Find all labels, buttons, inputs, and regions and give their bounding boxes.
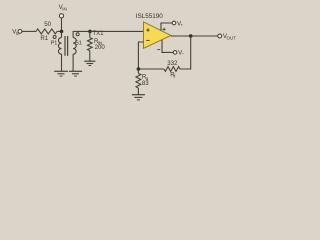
terminal VOUT	[218, 34, 222, 38]
wire primary bottom to ground	[61, 54, 63, 71]
svg-text:IN: IN	[62, 6, 66, 11]
transformer TX1 secondary winding	[73, 38, 76, 55]
label RIN	[94, 38, 102, 46]
wire node C to Rg	[137, 69, 139, 73]
wire R1 to node A	[57, 30, 62, 32]
label pin minus	[157, 49, 160, 51]
svg-text:332: 332	[167, 60, 178, 67]
label Rf value 332	[167, 60, 178, 67]
resistor R1	[36, 29, 57, 34]
wire op-amp minus input to node C	[138, 42, 143, 69]
terminal V+	[172, 21, 176, 25]
label S1	[75, 41, 82, 47]
wire VIN to node A	[61, 18, 63, 31]
wire VS to R1	[22, 30, 36, 32]
label V+	[177, 20, 183, 27]
junction output node	[189, 34, 193, 38]
wire op-amp output	[171, 35, 218, 37]
resistor Rf	[164, 67, 180, 72]
junction node C	[137, 67, 141, 71]
ground RIN	[84, 61, 95, 65]
wire node A to primary	[61, 31, 63, 37]
svg-text:200: 200	[95, 44, 106, 51]
op-amp V+ pin wire	[161, 23, 172, 31]
svg-text:R1: R1	[40, 35, 48, 42]
label R1 value 50	[44, 21, 51, 28]
wire Rg to ground	[137, 88, 139, 94]
wire RIN to ground	[89, 51, 91, 61]
svg-text:ISL55190: ISL55190	[136, 13, 163, 20]
op-amp V- pin wire	[162, 40, 173, 53]
node VIN label	[59, 4, 67, 12]
label TX1	[92, 30, 104, 37]
label RIN value 200	[95, 44, 106, 51]
svg-text:P1: P1	[51, 41, 58, 47]
svg-text:+: +	[180, 22, 183, 27]
label Rg	[142, 74, 149, 82]
wire output to Rf	[180, 36, 191, 69]
op-amp U1 ISL55190	[144, 22, 172, 48]
node VOUT label	[223, 33, 236, 41]
svg-text:OUT: OUT	[226, 36, 236, 41]
transformer core	[65, 36, 68, 56]
label P1	[51, 41, 58, 47]
node VS label	[12, 28, 19, 36]
wire Rf to node C	[138, 68, 164, 70]
svg-text:83: 83	[142, 80, 149, 87]
resistor RIN	[88, 38, 93, 51]
label Rf	[170, 71, 176, 79]
label Rg value 83	[142, 80, 149, 87]
ground primary	[54, 71, 68, 76]
label pin plus	[163, 28, 166, 31]
terminal V-	[173, 51, 177, 55]
terminal VIN	[59, 14, 63, 18]
label V-	[178, 50, 184, 57]
polarity dot P1	[53, 36, 56, 39]
terminal VS	[18, 30, 22, 34]
wire secondary bottom to ground	[72, 54, 74, 71]
resistor Rg	[136, 73, 141, 88]
ground Rg	[132, 95, 145, 100]
junction node B	[88, 30, 92, 34]
svg-text:50: 50	[44, 21, 51, 28]
polarity dot S1	[76, 33, 79, 36]
ground secondary	[69, 71, 82, 76]
wire secondary top to node B	[73, 31, 90, 37]
svg-text:S1: S1	[75, 41, 82, 47]
transformer TX1 primary winding	[58, 38, 61, 55]
svg-text:−: −	[182, 52, 185, 57]
junction node A	[60, 30, 64, 34]
wire node B to RIN	[89, 31, 91, 37]
label R1	[40, 35, 48, 42]
wire node B to op-amp plus input	[90, 30, 144, 32]
label ISL55190	[136, 13, 163, 20]
